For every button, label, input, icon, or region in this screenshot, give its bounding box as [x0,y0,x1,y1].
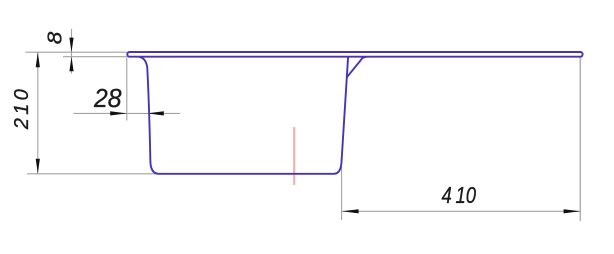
flange (top rim) outline [127,52,582,57]
extension line bowl bottom [27,173,159,175]
extension line bottom of flange [63,56,127,58]
extension line flange left end (vertical) [126,58,128,121]
svg-text:8: 8 [45,32,67,45]
dimension line 410 (horizontal) [342,210,580,212]
svg-text:210: 210 [11,89,33,130]
svg-text:28: 28 [93,83,122,113]
dimension line 210 (vertical) [37,52,39,174]
arrow 210 top (up) [36,52,40,67]
right wall gusset diagonal [347,57,367,77]
arrow 28 right (left, outside) [147,111,164,115]
dimension line 8 (vertical) [71,29,73,74]
arrow 410 right (right) [564,209,581,213]
extension line top of flange [26,51,128,53]
arrow 8 lower (up, outside) [69,57,73,72]
centerline (pink) of bowl drain [293,127,295,185]
dimension line 28 (horizontal) [74,112,181,114]
arrow 28 left (right, outside) [110,111,127,115]
arrow 8 upper (down, outside) [69,38,73,53]
svg-text:4 10: 4 10 [442,182,477,208]
arrow 410 left (left) [342,209,359,213]
bowl profile: left wall, bottom, right wall [139,57,348,174]
extension line bowl right corner (vertical) [341,167,343,221]
arrow 210 bottom (down) [36,159,40,174]
extension line flange right end (vertical) [579,58,581,222]
